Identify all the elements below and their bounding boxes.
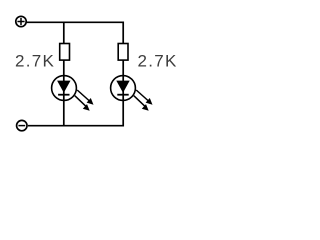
- svg-text:2.7K: 2.7K: [138, 51, 178, 70]
- svg-text:2.7K: 2.7K: [15, 51, 55, 70]
